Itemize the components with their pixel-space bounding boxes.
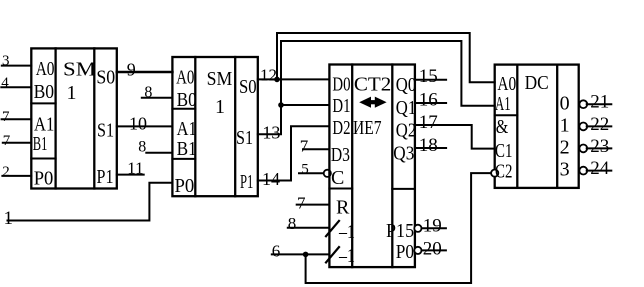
- pin 13: [262, 123, 280, 143]
- svg-text:A0: A0: [497, 73, 516, 95]
- label DC A0: [497, 73, 516, 95]
- label DC A1: [495, 93, 511, 115]
- pin 11: [127, 159, 143, 178]
- svg-text:2: 2: [2, 164, 10, 180]
- label SM1 1: [67, 82, 77, 104]
- svg-text:A1: A1: [495, 93, 511, 115]
- pin 7 R: [297, 194, 306, 213]
- label CT2 D3: [331, 144, 350, 166]
- svg-text:15: 15: [419, 66, 438, 87]
- dynamic input slash on pin 6: [326, 247, 339, 262]
- svg-text:20: 20: [423, 238, 442, 259]
- pin 17: [419, 112, 438, 133]
- label CT2 -1 up: [338, 245, 355, 267]
- DC output 3 bubble: [579, 167, 587, 175]
- pin 8 -1: [288, 214, 297, 233]
- svg-text:B1: B1: [177, 138, 197, 160]
- label DC C2: [495, 161, 512, 183]
- svg-text:P0: P0: [175, 175, 195, 197]
- label CT2 P0: [396, 241, 414, 263]
- decoder DC (DD4) body: [495, 65, 579, 188]
- label CT2 -1 down: [338, 221, 355, 243]
- pin 8 B1: [138, 139, 146, 156]
- label CT2 Q3: [393, 143, 414, 165]
- label SM2 SM: [207, 68, 233, 90]
- wire DC output 3 pin24 stub: [587, 170, 612, 172]
- svg-text:16: 16: [419, 89, 438, 110]
- wire SM2 input B0 (pin 8): [142, 97, 173, 99]
- pin 10: [129, 113, 147, 133]
- svg-text:22: 22: [590, 114, 609, 135]
- label SM2 A1: [177, 118, 197, 140]
- svg-text:Q3: Q3: [393, 143, 414, 165]
- label DC C1: [495, 140, 512, 162]
- label CT2 P15: [386, 220, 414, 242]
- node junction on pin13 net: [278, 102, 284, 108]
- label DC out 0: [560, 93, 570, 115]
- svg-text:D2: D2: [332, 117, 350, 139]
- svg-text:P1: P1: [240, 171, 253, 193]
- wire P15 pin19 stub: [422, 227, 446, 229]
- wire -1 input (pin 6) to C2(DC): [272, 253, 330, 255]
- wire Q1 pin16 stub: [415, 102, 446, 104]
- label SM1 P0: [34, 168, 54, 190]
- svg-text:C2: C2: [495, 161, 512, 183]
- label CT2 D1: [332, 95, 350, 117]
- wire DC output 1 pin22 stub: [587, 125, 612, 127]
- wire DC output 0 pin21 stub: [587, 103, 612, 105]
- adder SM2 (DD2) body: [172, 57, 257, 196]
- svg-text:ИЕ7: ИЕ7: [353, 117, 382, 139]
- svg-text:7: 7: [3, 133, 11, 149]
- wire pin12 net up and over to A0(DC): [277, 33, 495, 82]
- wire SM1 input B0 (pin 4): [1, 86, 31, 88]
- wire P0 pin20 stub: [422, 249, 446, 251]
- svg-text:B0: B0: [34, 81, 55, 103]
- wire SM1 input A0 (pin 3): [2, 65, 32, 67]
- svg-text:C: C: [331, 167, 344, 189]
- pin 8 B0: [144, 84, 152, 101]
- label SM1 S1: [97, 120, 114, 142]
- wire P1(SM2) pin14 to D2(CT2): [258, 126, 330, 180]
- bidirectional arrow symbol in CT2: [359, 97, 386, 108]
- label CT2 D0: [332, 74, 350, 96]
- label SM2 P0: [175, 175, 195, 197]
- svg-text:6: 6: [272, 241, 281, 260]
- pin 24: [590, 158, 610, 179]
- svg-text:S1: S1: [97, 120, 114, 142]
- svg-text:A0: A0: [36, 58, 55, 80]
- svg-text:9: 9: [127, 59, 136, 79]
- svg-text:5: 5: [301, 162, 309, 178]
- svg-text:&: &: [496, 116, 509, 138]
- dynamic input slash on pin 8: [326, 221, 339, 236]
- label SM2 B1: [177, 138, 197, 160]
- P15 output inversion bubble: [414, 225, 421, 232]
- label SM1 S0: [96, 67, 115, 89]
- svg-text:10: 10: [129, 113, 147, 133]
- pin 6 -1: [272, 241, 281, 260]
- svg-text:1: 1: [67, 82, 77, 104]
- svg-text:D3: D3: [331, 144, 350, 166]
- pin 7 B1: [3, 133, 11, 149]
- svg-text:SM: SM: [207, 68, 233, 90]
- label SM2 1: [215, 96, 225, 118]
- pin 12: [260, 65, 277, 84]
- label CT2 R: [336, 197, 350, 219]
- svg-text:–1: –1: [338, 245, 355, 267]
- wire P1(SM1) pin11 stub: [117, 174, 144, 176]
- wire SM1 input A1 (pin 7): [2, 118, 32, 120]
- svg-text:23: 23: [590, 136, 609, 157]
- svg-text:Q1: Q1: [396, 97, 416, 119]
- wire D3 input (pin 7): [303, 148, 329, 150]
- svg-text:CT2: CT2: [354, 74, 391, 96]
- svg-text:14: 14: [262, 169, 280, 189]
- label CT2 IE7: [353, 117, 382, 139]
- label SM1 B1: [33, 133, 48, 155]
- pin 21: [590, 92, 609, 113]
- wire S0(SM2) pin12 to D0(CT2): [258, 78, 330, 80]
- svg-text:8: 8: [288, 214, 297, 233]
- label SM2 P1: [240, 171, 253, 193]
- svg-text:2: 2: [560, 137, 570, 159]
- svg-text:7: 7: [297, 194, 306, 213]
- wire SM1 input B1 (pin 7): [3, 142, 32, 144]
- label SM1 P1: [97, 166, 114, 188]
- label CT2 Q1: [396, 97, 416, 119]
- svg-text:8: 8: [138, 139, 146, 156]
- pin 3: [2, 53, 10, 69]
- svg-text:–1: –1: [338, 221, 355, 243]
- svg-text:24: 24: [590, 158, 610, 179]
- node junction on pin6 net: [303, 252, 309, 258]
- wire -1 count-down input (pin 8): [288, 227, 330, 229]
- pin 14: [262, 169, 280, 189]
- pin 22: [590, 114, 609, 135]
- svg-text:Q0: Q0: [396, 74, 416, 96]
- svg-text:D0: D0: [332, 74, 350, 96]
- svg-text:19: 19: [423, 216, 442, 237]
- wire SM1 input P0 (pin 2): [2, 175, 31, 177]
- svg-text:S1: S1: [236, 127, 253, 149]
- pin 4: [1, 75, 9, 91]
- pin 5 C: [301, 162, 309, 178]
- svg-text:S0: S0: [96, 67, 115, 89]
- svg-text:SM: SM: [63, 59, 96, 81]
- svg-text:1: 1: [4, 208, 14, 229]
- svg-text:S0: S0: [239, 76, 257, 98]
- svg-text:P0: P0: [34, 168, 54, 190]
- label DC type: [525, 72, 549, 94]
- wire pin6 net down and over to C2(DC): [306, 173, 492, 283]
- pin 15: [419, 66, 438, 87]
- label SM1 B0: [34, 81, 55, 103]
- label CT2 D2: [332, 117, 350, 139]
- svg-text:3: 3: [560, 159, 570, 181]
- label CT2 Q2: [396, 120, 416, 142]
- svg-text:DC: DC: [525, 72, 549, 94]
- DC output 0 bubble: [579, 100, 587, 108]
- C input inversion bubble: [324, 170, 331, 177]
- pin 20: [423, 238, 442, 259]
- svg-text:7: 7: [2, 109, 10, 125]
- pin 18: [419, 135, 438, 156]
- svg-text:P15: P15: [386, 220, 414, 242]
- C2 input inversion bubble: [491, 170, 498, 177]
- wire pin13 net up and over to A1(DC): [281, 41, 495, 106]
- wire Q2 pin17 to C1(DC): [415, 125, 495, 149]
- label SM1 A0: [36, 58, 55, 80]
- wire S0(SM1) pin9 to A0(SM2): [117, 71, 173, 74]
- svg-text:P1: P1: [97, 166, 114, 188]
- pin 2: [2, 164, 10, 180]
- pin 23: [590, 136, 609, 157]
- label SM2 A0: [176, 67, 194, 89]
- svg-text:1: 1: [215, 96, 225, 118]
- svg-text:A1: A1: [177, 118, 197, 140]
- adder SM1 (DD1) body: [31, 48, 117, 188]
- DC output 1 bubble: [579, 123, 587, 131]
- wire net 1 to P0(SM2): [8, 183, 173, 221]
- wire SM2 input B1 (pin 8): [146, 152, 172, 154]
- svg-text:0: 0: [560, 93, 570, 115]
- label DC out 3: [560, 159, 570, 181]
- wire R input (pin 7): [297, 204, 330, 206]
- label SM2 S1: [236, 127, 253, 149]
- svg-text:4: 4: [1, 75, 9, 91]
- wire S1(SM1) pin10 to A1(SM2): [117, 125, 173, 127]
- svg-text:17: 17: [419, 112, 438, 133]
- svg-text:11: 11: [127, 159, 143, 178]
- label SM2 S0: [239, 76, 257, 98]
- svg-text:12: 12: [260, 65, 277, 84]
- svg-text:13: 13: [262, 123, 280, 143]
- P0 output inversion bubble: [414, 247, 421, 254]
- pin 7 D3: [300, 137, 309, 156]
- svg-text:18: 18: [419, 135, 438, 156]
- wire Q0 pin15 stub: [415, 79, 446, 81]
- svg-text:8: 8: [144, 84, 152, 101]
- counter CT2 IE7 (DD3) body: [329, 65, 415, 268]
- svg-text:7: 7: [300, 137, 309, 156]
- svg-text:B0: B0: [177, 89, 197, 111]
- svg-text:21: 21: [590, 92, 609, 113]
- DC output 2 bubble: [579, 145, 587, 153]
- wire C input (pin 5): [299, 172, 324, 174]
- svg-text:D1: D1: [332, 95, 350, 117]
- pin 16: [419, 89, 438, 110]
- svg-text:A0: A0: [176, 67, 194, 89]
- svg-text:P0: P0: [396, 241, 414, 263]
- pin 9: [127, 59, 136, 79]
- pin 7 A1: [2, 109, 10, 125]
- node junction on pin12 net: [274, 77, 280, 83]
- svg-text:R: R: [336, 197, 350, 219]
- svg-text:3: 3: [2, 53, 10, 69]
- wire DC output 2 pin23 stub: [587, 147, 612, 149]
- pin 1: [4, 208, 14, 229]
- wire S1(SM2) pin13 to D1(CT2): [258, 105, 330, 134]
- svg-text:B1: B1: [33, 133, 48, 155]
- wire Q3 pin18 stub: [415, 147, 446, 149]
- label SM1 A1: [34, 114, 54, 136]
- pin 19: [423, 216, 442, 237]
- svg-text:Q2: Q2: [396, 120, 416, 142]
- svg-text:1: 1: [560, 115, 570, 137]
- label DC ampersand: [496, 116, 509, 138]
- label CT2 type: [354, 74, 391, 96]
- label CT2 C: [331, 167, 344, 189]
- label CT2 Q0: [396, 74, 416, 96]
- label SM2 B0: [177, 89, 197, 111]
- label DC out 2: [560, 137, 570, 159]
- svg-text:C1: C1: [495, 140, 512, 162]
- label SM1 SM: [63, 59, 96, 81]
- label DC out 1: [560, 115, 570, 137]
